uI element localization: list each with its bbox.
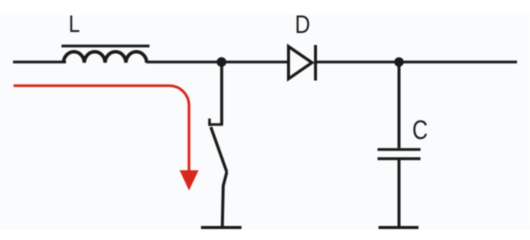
diode D [289,45,316,81]
svg-text:D: D [295,10,310,38]
inductor L [62,46,150,63]
wire: inductor to diode anode [147,61,291,64]
wire: junction to switch top contact [220,62,223,125]
node: output junction [394,57,404,67]
node: switch junction [217,57,227,67]
capacitor bottom terminal bar [379,226,419,229]
capacitor C [378,150,421,159]
wire: switch blade to bottom terminal [222,172,227,227]
switch bottom terminal bar [201,226,242,229]
svg-text:L: L [69,10,80,37]
svg-text:C: C [412,116,428,146]
wire: diode cathode to output [316,61,518,64]
red current flow arrow [14,86,199,191]
wire: input to inductor [13,61,66,64]
wire: output junction to capacitor [398,62,401,148]
wire: capacitor to bottom terminal [398,159,401,227]
switch S1 (open blade) [209,119,227,173]
